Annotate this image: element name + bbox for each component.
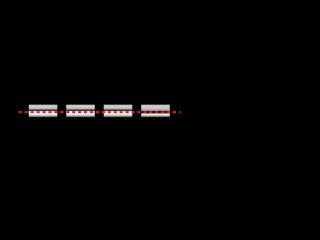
- wall segment 1: white body with dash row: [29, 111, 58, 117]
- wall segment 4: white body below: [141, 113, 170, 117]
- wall segment 2: cap bar darkening to dark line: [66, 105, 95, 111]
- wall segment 1: cap bar darkening to dark line: [29, 105, 58, 111]
- wall segment 2: white body with dash row: [66, 111, 95, 117]
- wall segment 3: cap bar darkening to dark line: [104, 105, 133, 111]
- red dashed line: glow on black: [19, 111, 181, 114]
- wall segment 4: black line at dash row: [141, 111, 170, 114]
- wall segment 3: white body with dash row: [104, 111, 133, 117]
- red dashed line: core: [19, 111, 181, 113]
- wall segment 4: cap bar without dark line: [141, 105, 170, 111]
